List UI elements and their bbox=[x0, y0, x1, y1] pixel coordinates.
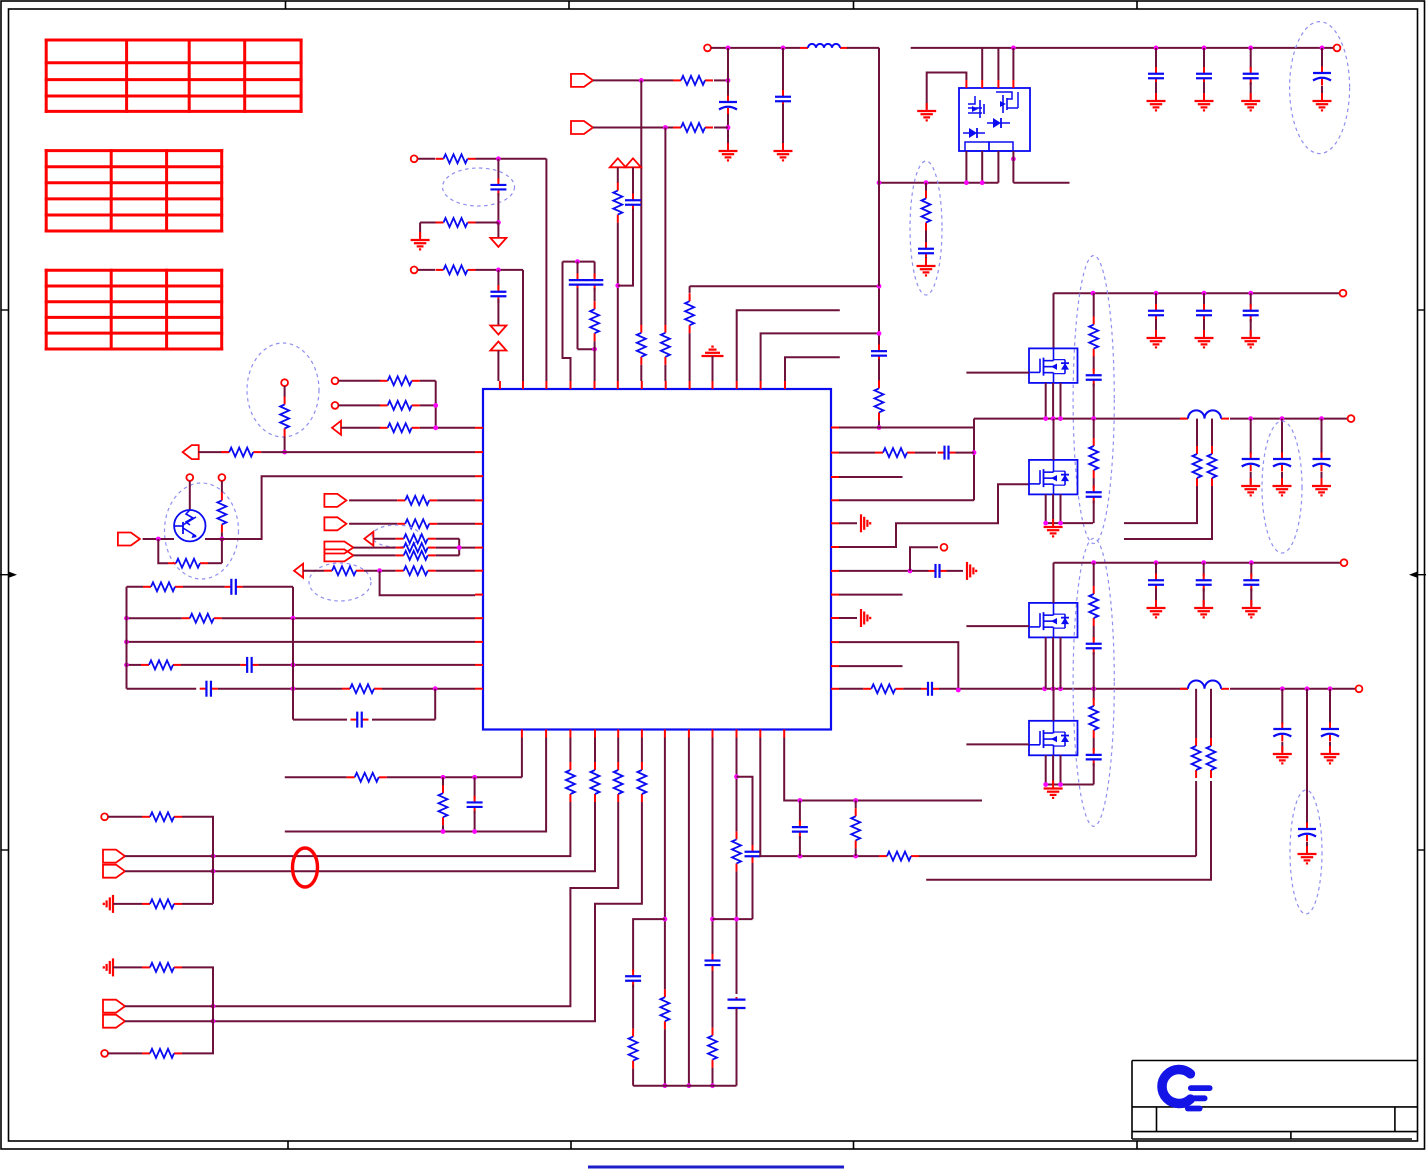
input arrow A427 bbox=[332, 421, 341, 435]
mosfet M6 bbox=[1029, 721, 1078, 756]
gate stub M6 bbox=[966, 743, 1029, 745]
port P856 bbox=[103, 850, 125, 863]
capacitor C633 bbox=[632, 970, 634, 977]
resistor R570a bbox=[324, 570, 332, 572]
pin713 drop bbox=[712, 738, 714, 956]
wire under C_xtal_a bbox=[577, 288, 579, 349]
ellipse around C group1 bbox=[443, 168, 515, 206]
wire pin689 up and right to x879 bbox=[689, 286, 691, 293]
wire R1197 to stub row bbox=[1124, 486, 1197, 523]
wire port2 node down to IC pin 665 bbox=[664, 128, 666, 326]
right border zone arrow bbox=[1409, 572, 1418, 578]
resistor R group1b bbox=[436, 222, 444, 224]
resistor R row452 bbox=[221, 451, 229, 453]
capacitor C720 bbox=[351, 719, 358, 721]
wire top bus to inductor bbox=[728, 47, 800, 49]
wire top bus right segment bbox=[911, 47, 1333, 49]
wire chassis967 to R bbox=[113, 966, 142, 968]
port P452 bbox=[183, 445, 199, 459]
snubber M5 down bbox=[1093, 652, 1095, 689]
wire x879 middle bbox=[878, 359, 880, 384]
pol cap C1307 bbox=[1306, 823, 1308, 830]
terminal T335a bbox=[332, 377, 339, 384]
row777 bbox=[285, 776, 347, 778]
row452 right bbox=[839, 452, 875, 454]
resistor R689 bbox=[342, 688, 350, 690]
pin570 drop resistor bbox=[569, 738, 571, 763]
power flag up x617 bbox=[610, 158, 626, 167]
terminal T335b bbox=[332, 402, 339, 409]
bus1 caps to ground bbox=[1155, 293, 1157, 307]
resistor R x689 bbox=[689, 293, 691, 301]
bus2 pol caps bbox=[1250, 419, 1252, 454]
row 618 bbox=[127, 617, 182, 619]
capacitor C_xtal_a bbox=[577, 262, 579, 277]
pin760 drop to feedback A bbox=[760, 738, 879, 857]
row 689 bbox=[127, 688, 197, 690]
wire R_xtal to IC pin 594 bbox=[594, 341, 596, 381]
wire R904 to corner up bbox=[182, 903, 213, 905]
bus3 y562.7 bbox=[1054, 562, 1341, 564]
ellipse around R284 bbox=[247, 343, 319, 437]
ground g1307 bbox=[1306, 846, 1308, 854]
resistor R967 bbox=[142, 966, 150, 968]
dual mosfet pack Q1 internals bbox=[968, 96, 975, 104]
feedback wire B bbox=[926, 781, 1211, 880]
IC U1 body bbox=[483, 389, 831, 730]
capacitor C x926 bbox=[925, 231, 927, 246]
title block frame bbox=[1132, 1060, 1418, 1062]
terminal TQ2b bbox=[219, 474, 226, 481]
wire x617 down to IC pin bbox=[617, 223, 619, 381]
resistor R_top2 bbox=[673, 127, 681, 129]
branch x633 bbox=[633, 919, 665, 972]
resistor R414b bbox=[436, 269, 444, 271]
ellipse around pol cap 1322 bbox=[1290, 22, 1350, 154]
resistor R_fbB bbox=[1210, 738, 1212, 746]
capacitor C689 bbox=[200, 688, 207, 690]
wire fbA right bbox=[919, 855, 1196, 857]
terminal top right bbox=[1334, 45, 1341, 52]
wire R618 to IC bbox=[222, 617, 475, 619]
input arrow A538 bbox=[364, 532, 373, 546]
left border zone arrow bbox=[9, 572, 18, 578]
wire P523 to R bbox=[349, 523, 397, 525]
capacitor C x783 bbox=[782, 48, 784, 94]
wire R800 down bbox=[855, 848, 857, 856]
branch x752 bbox=[737, 777, 753, 845]
bus2 right segment bbox=[1230, 418, 1347, 420]
snubber M4 to source row bbox=[1093, 501, 1095, 524]
resistor R_top1 bbox=[673, 79, 681, 81]
capacitor C736 big bbox=[736, 997, 738, 999]
wire arrow to R bbox=[341, 427, 381, 429]
wire P547 to R bbox=[353, 547, 395, 549]
wire R633 to bus bbox=[632, 1069, 634, 1086]
feedback divider R1197 bbox=[1196, 419, 1198, 446]
wire R to node x728 bbox=[714, 79, 728, 81]
resistor R335b bbox=[380, 404, 388, 406]
wire row452 bbox=[198, 451, 229, 453]
pin736 drop bbox=[736, 738, 738, 832]
pin689 drop bbox=[688, 738, 690, 1086]
resistor R618 bbox=[182, 617, 190, 619]
wire R1053 corner up bbox=[182, 1021, 213, 1053]
wire pin760 hook to x879 bbox=[761, 333, 879, 381]
logo mark bbox=[1162, 1069, 1190, 1103]
wire R1212 to stub row bbox=[1124, 486, 1212, 539]
feedback divider R1212 bbox=[1211, 419, 1213, 446]
resistor R816 bbox=[142, 816, 150, 818]
capacitor C group1 bbox=[497, 159, 499, 181]
row642 to bus4 bbox=[839, 642, 958, 690]
capacitor C452r bbox=[938, 452, 945, 454]
capacitor C752 bbox=[752, 845, 754, 852]
wire x633 down and left bbox=[618, 209, 633, 286]
wire C587 to corner bbox=[243, 586, 293, 588]
red highlight ellipse bbox=[293, 848, 318, 887]
terminal T414b bbox=[411, 267, 418, 274]
inductor L_bus2 bbox=[1180, 418, 1188, 420]
bus4 pol caps bbox=[1281, 689, 1283, 724]
ellipse around cap 1282 bbox=[1262, 421, 1302, 553]
resistor R_xtal bbox=[594, 288, 596, 301]
wire R452r to cap bbox=[915, 452, 936, 454]
wire vertical x879 upper bbox=[878, 48, 880, 348]
wire x879 to pin427 row bbox=[878, 420, 880, 427]
wire fbA up x1196 bbox=[1195, 781, 1197, 856]
resistor R523 bbox=[397, 523, 405, 525]
mosfet M4 bbox=[1029, 460, 1078, 495]
port P1021 bbox=[103, 1015, 125, 1028]
wire R690 to cap bbox=[903, 688, 921, 690]
wire to IC pin 500 bbox=[497, 351, 499, 382]
port PQ2 bbox=[118, 533, 140, 546]
wire R2 to x728 bbox=[714, 127, 728, 129]
row666 stub bbox=[839, 665, 903, 667]
wire R570b to IC bbox=[436, 570, 475, 572]
row547 gate route to M4 bbox=[839, 484, 1029, 547]
port P500 bbox=[324, 494, 346, 507]
capacitor C571r bbox=[929, 570, 936, 572]
resistor RQ2 bbox=[221, 492, 223, 500]
snubber R M4 bbox=[1093, 419, 1095, 438]
port P_IN2 bbox=[571, 121, 593, 134]
resistor R555 bbox=[396, 554, 404, 556]
M6 drain pin bbox=[1053, 689, 1055, 721]
terminal T_bus2 bbox=[1348, 415, 1355, 422]
resistor R284 vertical bbox=[284, 386, 286, 397]
snubber C M6 bbox=[1093, 738, 1095, 751]
wire P500 to R bbox=[349, 499, 397, 501]
power flag down group2 bbox=[497, 299, 499, 326]
resistor R inline x641 bbox=[640, 325, 642, 333]
capacitor C474 bbox=[474, 777, 476, 798]
wire node x728 vertical bbox=[727, 48, 729, 97]
resistor R_fbA bbox=[879, 855, 887, 857]
wire port2 to R bbox=[593, 127, 673, 129]
wire R547 to IC bbox=[436, 547, 475, 549]
bus1 y293 bbox=[1054, 292, 1340, 294]
wire port856 bbox=[125, 855, 213, 857]
ground g414 bbox=[419, 232, 421, 240]
terminal T_bus3 bbox=[1341, 559, 1348, 566]
wire C571r chassis bbox=[947, 570, 964, 572]
wire R713 to bus bbox=[712, 1068, 714, 1086]
revision table 2 bbox=[45, 149, 224, 152]
caps on top right bus bbox=[1155, 48, 1157, 70]
terminal T414a bbox=[411, 155, 418, 162]
wire R_fbB top bbox=[1210, 689, 1212, 738]
wire to IC pin 689 bbox=[689, 333, 691, 381]
capacitor C_xtal_b bbox=[594, 262, 596, 277]
row594 stub bbox=[839, 594, 903, 596]
resistor R713 bbox=[712, 1028, 714, 1036]
capacitor C665 bbox=[240, 664, 247, 666]
vertical x974 bbox=[973, 419, 975, 501]
junction row 919 bbox=[713, 918, 753, 920]
wire R689 to IC bbox=[382, 688, 475, 690]
wire pin595 to row871 bbox=[213, 802, 595, 871]
ground g1322 bbox=[1321, 93, 1323, 101]
wire C800 down bbox=[799, 836, 801, 856]
wire row452 to IC bbox=[261, 451, 475, 453]
wire port871 bbox=[125, 870, 213, 872]
capacitor C group2 bbox=[497, 270, 499, 289]
capacitor C713 bbox=[712, 954, 714, 961]
wire R538 corner bbox=[436, 538, 460, 540]
resistor R x617 bbox=[617, 167, 619, 183]
ellipse around C1307 bbox=[1290, 790, 1322, 914]
bottom-left row 587 bbox=[127, 586, 144, 588]
port P1006 bbox=[103, 1000, 125, 1013]
wire C474 down bbox=[474, 811, 476, 832]
M4 source row bbox=[1046, 522, 1093, 524]
wire R967 corner down bbox=[182, 967, 213, 1021]
resistor R904 bbox=[142, 903, 150, 905]
port P547 upper bbox=[324, 542, 353, 554]
wire down x523 to IC pin bbox=[522, 270, 524, 381]
pin546 drop bbox=[285, 738, 546, 832]
pin784 drop to row800 bbox=[784, 738, 982, 801]
snubber R M3 bbox=[1093, 293, 1095, 317]
capacitor C inline x879 bbox=[878, 344, 880, 351]
pin522 drop bbox=[521, 738, 523, 778]
wire port to base bbox=[143, 538, 174, 540]
ellipse around transistor Q2 bbox=[165, 483, 239, 579]
wire crystal left leg bbox=[563, 262, 571, 381]
revision table 1 bbox=[45, 39, 303, 42]
row571 right bbox=[839, 570, 908, 572]
ellipse around RC x926 bbox=[910, 161, 942, 295]
wire R777 to pin522 bbox=[387, 776, 522, 778]
row 720 bbox=[293, 719, 347, 721]
M6 source row bbox=[1046, 784, 1094, 786]
terminal T816 bbox=[101, 813, 108, 820]
ground M6 bbox=[1052, 781, 1054, 789]
wire R665 to cap bbox=[181, 664, 240, 666]
ground g926 bbox=[926, 103, 928, 111]
resistor R538 bbox=[396, 538, 404, 540]
wire crystal top bar bbox=[563, 261, 595, 263]
chassis ground sym 904 bbox=[112, 895, 114, 913]
pack top pin stubs bbox=[965, 80, 967, 88]
port P547 lower bbox=[324, 549, 353, 561]
row618 chassis bbox=[839, 617, 857, 619]
resistor RQ2fb bbox=[168, 562, 176, 564]
wire R555 corner bbox=[436, 554, 460, 556]
resistor R inline x665 bbox=[664, 325, 666, 333]
wire chassis904 to R bbox=[113, 903, 142, 905]
resistor R587 bbox=[143, 586, 151, 588]
bottom bus bbox=[633, 1085, 736, 1087]
resistor R736 bbox=[736, 831, 738, 839]
wire C1307 to gnd bbox=[1306, 842, 1308, 852]
resistor R414a bbox=[436, 158, 444, 160]
wire port1 to R bbox=[593, 79, 673, 81]
transistor Q2 bbox=[174, 510, 205, 541]
power flag down group1 bbox=[497, 223, 499, 238]
resistor R427 bbox=[380, 427, 388, 429]
wire A570 to R bbox=[303, 570, 324, 572]
terminal T_bus1 bbox=[1340, 290, 1347, 297]
snubber M3 to bus2 bbox=[1093, 384, 1095, 419]
ground below C x783 bbox=[782, 143, 784, 151]
M6 source pins bbox=[1045, 755, 1047, 784]
wire to corner x546 bbox=[476, 158, 547, 160]
wire R_fbA2 top bbox=[1195, 689, 1197, 738]
polarized cap C1322 bbox=[1321, 48, 1323, 68]
terminal T_bus4 bbox=[1356, 685, 1363, 692]
wire inductor to corner x879 bbox=[847, 47, 879, 49]
wire pin618 jog to row1006 bbox=[213, 802, 618, 1006]
ellipse cluster row538 bbox=[372, 525, 420, 547]
snubber R M6 bbox=[1093, 689, 1095, 700]
M4 drain pin bbox=[1053, 419, 1055, 460]
inductor L_bus4 bbox=[1180, 688, 1188, 690]
column x293 bbox=[292, 618, 294, 719]
resistor R665 bbox=[141, 664, 149, 666]
snubber R M5 bbox=[1093, 563, 1095, 586]
wire row427 to IC bbox=[420, 427, 475, 429]
row427 right bbox=[839, 427, 974, 429]
wire C713 to R bbox=[712, 971, 714, 1028]
wire x1307 down bbox=[1306, 689, 1308, 824]
capacitor C800 bbox=[799, 801, 801, 823]
wire fb to emitter bbox=[208, 562, 222, 564]
wire C752 down bbox=[752, 863, 754, 919]
wire C665 to IC bbox=[258, 664, 475, 666]
wire port1006 bbox=[125, 1005, 213, 1007]
footer link line bbox=[588, 1166, 844, 1169]
snubber C M4 bbox=[1093, 478, 1095, 488]
resistor R570b bbox=[396, 570, 404, 572]
inductor L1 bbox=[800, 47, 808, 49]
resistor R690 bbox=[863, 688, 871, 690]
pack top pin wires bbox=[981, 48, 983, 80]
terminal T1053 bbox=[101, 1050, 108, 1057]
wire R736 down bbox=[736, 871, 738, 994]
wire to IC pin bbox=[640, 365, 642, 381]
gate stub M5 bbox=[966, 625, 1029, 627]
M5 drain pin bbox=[1053, 563, 1055, 603]
wire R to gnd corner bbox=[420, 222, 435, 224]
row 665 bbox=[127, 664, 142, 666]
wire to x435 junction bbox=[420, 404, 436, 406]
M3 source pins to bus2 bbox=[1045, 383, 1047, 419]
gate stub M3 bbox=[966, 372, 1029, 374]
input arrow A570 bbox=[294, 564, 303, 578]
M5 source pins to bus4 bbox=[1045, 637, 1047, 688]
bus4 right segment bbox=[1230, 688, 1355, 690]
mid bus y183 left bbox=[879, 182, 998, 184]
wire R665b to bus bbox=[664, 1029, 666, 1086]
wire emitter to row476 bbox=[196, 536, 222, 539]
resistor R x926 bbox=[925, 183, 927, 191]
capacitor C_pol x728 bbox=[727, 96, 729, 103]
snubber C M3 bbox=[1093, 356, 1095, 371]
resistor R_fbA2 bbox=[1195, 738, 1197, 746]
resistor R800 bbox=[855, 801, 857, 809]
resistor R547 bbox=[396, 547, 404, 549]
resistor R665b bbox=[664, 989, 666, 997]
mid bus y183 right bbox=[1013, 182, 1069, 184]
IC U1 pin stubs bbox=[499, 381, 501, 389]
port P871 bbox=[103, 865, 125, 878]
ground below C x728 bbox=[727, 143, 729, 151]
terminal T284 bbox=[281, 379, 288, 386]
feedback loop Q2 bbox=[158, 539, 168, 563]
big dashed ellipse group1 bbox=[1073, 256, 1114, 544]
bus3 caps to ground bbox=[1155, 563, 1157, 577]
pin618 drop resistor bbox=[617, 738, 619, 763]
pin642 drop resistor bbox=[641, 738, 643, 763]
wire P555 to R bbox=[353, 554, 395, 556]
wire C783 to gnd bbox=[782, 104, 784, 149]
capacitor C690 bbox=[921, 688, 928, 690]
wire R570a to junction bbox=[364, 570, 396, 572]
wire to corner x435 bbox=[420, 380, 436, 382]
wire C to junction2 bbox=[497, 193, 499, 223]
wire R284 to row452 bbox=[284, 437, 286, 453]
wire x879 segment mid bbox=[878, 48, 880, 286]
terminal T946 bbox=[910, 547, 938, 571]
wire R587 to cap bbox=[183, 586, 225, 588]
wire pin785 hook bbox=[785, 357, 840, 381]
resistor R452r bbox=[875, 452, 883, 454]
pin595 drop resistor bbox=[594, 738, 596, 763]
power flag up group2 bbox=[490, 342, 506, 351]
left column x126 bbox=[126, 587, 128, 689]
row477 stub bbox=[839, 476, 903, 478]
wire R500 to IC bbox=[437, 499, 475, 501]
snubber M6 down bbox=[1093, 763, 1095, 784]
wire bus1 corner to M3 drain bbox=[1053, 293, 1055, 348]
resistor R777 bbox=[347, 776, 355, 778]
power flag up x633 bbox=[625, 158, 641, 167]
dual mosfet pack Q1 box bbox=[959, 88, 1030, 151]
snubber C M5 bbox=[1093, 626, 1095, 640]
pack bottom pins to bus bbox=[965, 151, 967, 183]
capacitor C587 bbox=[225, 586, 232, 588]
ellipse around R570a bbox=[309, 563, 371, 601]
wire C689 to R bbox=[218, 688, 342, 690]
resistor R633 bbox=[632, 1029, 634, 1037]
port P_IN1 bbox=[571, 74, 593, 87]
wire to IC pin 665 bbox=[664, 365, 666, 381]
pin665 drop bbox=[664, 738, 666, 990]
wire node to corner x261 bbox=[222, 476, 475, 539]
